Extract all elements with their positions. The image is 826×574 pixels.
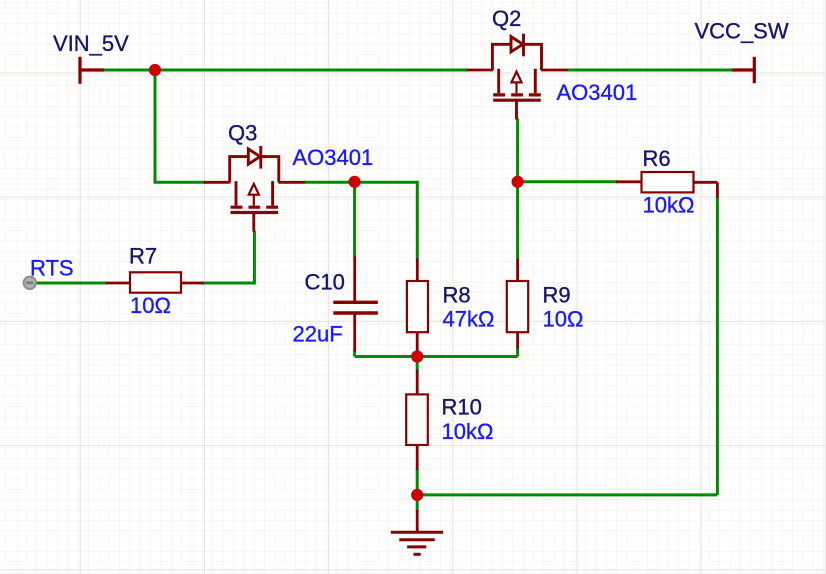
wire RTS to R7 <box>36 282 107 285</box>
pin RTS (gray terminal) <box>24 277 36 289</box>
wire R8 bottom stub <box>416 352 419 357</box>
svg-text:C10: C10 <box>305 270 345 295</box>
wire node C to R6 <box>518 180 617 183</box>
wire Q3 gate down to R7 row <box>201 231 255 283</box>
node D junction (R8 / R9 / C10 / R10) <box>411 350 423 362</box>
svg-text:RTS: RTS <box>30 256 74 281</box>
port VCC_SW <box>732 57 754 83</box>
wire node D to R10 <box>416 357 419 371</box>
svg-text:R7: R7 <box>129 244 157 269</box>
svg-text:VCC_SW: VCC_SW <box>695 19 789 44</box>
node A junction (VIN rail / Q3 branch) <box>149 64 161 76</box>
svg-text:R6: R6 <box>643 146 671 171</box>
wire node B down to C10 <box>353 182 356 257</box>
svg-text:22uF: 22uF <box>293 322 343 347</box>
wire R10 bottom to node E <box>416 469 419 495</box>
port VIN_5V <box>80 57 104 84</box>
resistor R9 <box>507 259 528 349</box>
resistor R10 <box>406 370 428 471</box>
wire VCC_SW rail right <box>567 69 733 72</box>
node E junction (R10 / R6 rail / ground) <box>411 489 423 501</box>
wire node E to ground <box>416 495 419 511</box>
node C junction (Q2 gate / R6 / R9) <box>511 176 523 188</box>
wire bottom rail to node E <box>417 493 717 496</box>
ground <box>391 510 443 554</box>
svg-text:AO3401: AO3401 <box>293 145 374 170</box>
svg-text:R9: R9 <box>543 283 571 308</box>
resistor R8 <box>407 259 428 353</box>
wire node D row <box>355 347 518 357</box>
svg-text:R8: R8 <box>443 283 471 308</box>
svg-text:R10: R10 <box>442 395 482 420</box>
node B junction (Q3 drain / C10) <box>349 176 361 188</box>
svg-text:AO3401: AO3401 <box>557 80 638 105</box>
transistor Q3 (PMOS AO3401) <box>204 146 305 232</box>
wire Q2 gate to node C <box>516 119 519 183</box>
wire Q3 drain to R8 corner <box>304 182 417 259</box>
svg-text:10kΩ: 10kΩ <box>643 193 695 218</box>
transistor Q2 (PMOS AO3401) <box>467 34 568 120</box>
resistor R6 <box>616 172 717 198</box>
svg-text:10Ω: 10Ω <box>543 307 584 332</box>
svg-text:10Ω: 10Ω <box>130 293 171 318</box>
wire VIN_5V rail left <box>104 69 468 72</box>
svg-text:Q3: Q3 <box>228 121 257 146</box>
wire C10 bottom corner <box>353 351 356 357</box>
svg-text:10kΩ: 10kΩ <box>442 419 494 444</box>
svg-text:VIN_5V: VIN_5V <box>53 31 129 56</box>
svg-text:47kΩ: 47kΩ <box>443 307 495 332</box>
wire R6 right down rail <box>716 197 719 495</box>
wire junction A down to Q3 row <box>155 70 206 182</box>
wire node C down to R9 <box>516 182 519 260</box>
svg-text:Q2: Q2 <box>492 6 521 31</box>
capacitor C10 <box>333 257 378 352</box>
resistor R7 <box>106 272 204 292</box>
